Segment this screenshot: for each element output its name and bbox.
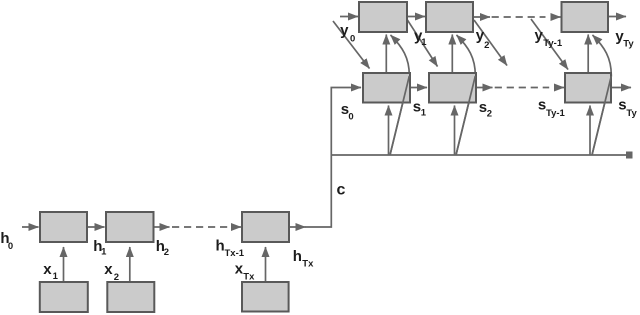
svg-text:1: 1	[421, 37, 427, 48]
svg-text:h: h	[216, 237, 225, 254]
svg-text:y: y	[535, 27, 544, 44]
svg-text:Ty: Ty	[626, 108, 637, 119]
svg-text:s: s	[538, 97, 546, 114]
svg-text:2: 2	[484, 40, 489, 51]
svg-text:s: s	[618, 96, 626, 113]
svg-text:1: 1	[101, 246, 107, 257]
svg-text:2: 2	[114, 272, 119, 283]
svg-text:0: 0	[350, 33, 355, 44]
svg-text:Ty-1: Ty-1	[546, 108, 566, 119]
svg-text:1: 1	[421, 107, 427, 118]
svg-text:h: h	[293, 248, 302, 265]
svg-text:2: 2	[164, 247, 169, 258]
svg-text:0: 0	[8, 241, 13, 252]
svg-text:Tx: Tx	[302, 259, 314, 270]
svg-text:x: x	[104, 261, 113, 278]
svg-text:c: c	[337, 181, 346, 198]
svg-text:Tx: Tx	[243, 271, 255, 282]
svg-text:Tx-1: Tx-1	[225, 248, 245, 259]
svg-text:s: s	[479, 99, 487, 116]
svg-text:1: 1	[53, 271, 59, 282]
svg-text:Ty: Ty	[623, 38, 634, 49]
svg-text:2: 2	[487, 109, 492, 120]
svg-text:y: y	[340, 22, 349, 39]
svg-text:s: s	[413, 99, 421, 116]
svg-text:Ty-1: Ty-1	[543, 38, 563, 49]
svg-text:0: 0	[348, 111, 353, 122]
svg-text:x: x	[43, 261, 52, 278]
